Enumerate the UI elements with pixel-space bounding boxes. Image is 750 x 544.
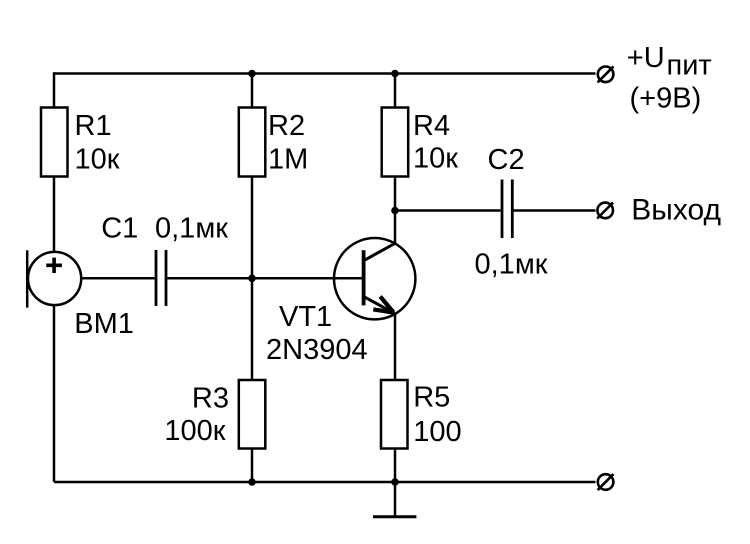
svg-text:10к: 10к	[413, 143, 458, 175]
svg-text:100к: 100к	[164, 415, 225, 447]
svg-text:0,1мк: 0,1мк	[155, 213, 228, 245]
svg-text:+U: +U	[627, 42, 665, 74]
svg-text:1M: 1M	[268, 144, 308, 176]
svg-text:C2: C2	[488, 144, 525, 176]
svg-text:R5: R5	[413, 382, 450, 414]
svg-text:R2: R2	[268, 110, 305, 142]
svg-text:пит: пит	[667, 49, 712, 81]
svg-text:2N3904: 2N3904	[266, 334, 368, 366]
svg-text:R1: R1	[75, 110, 112, 142]
svg-text:0,1мк: 0,1мк	[475, 248, 548, 280]
svg-text:VT1: VT1	[279, 301, 332, 333]
svg-text:Выход: Выход	[631, 193, 721, 226]
svg-text:R4: R4	[413, 110, 450, 142]
svg-text:R3: R3	[192, 383, 229, 415]
svg-text:(+9В): (+9В)	[630, 83, 702, 115]
svg-text:C1: C1	[101, 212, 138, 244]
svg-text:100: 100	[413, 416, 461, 448]
svg-text:BM1: BM1	[74, 308, 134, 340]
svg-text:10к: 10к	[75, 144, 120, 176]
